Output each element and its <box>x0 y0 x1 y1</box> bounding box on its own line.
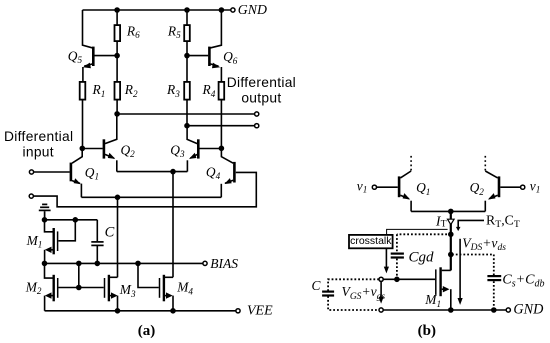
resistor R4 <box>219 82 225 100</box>
terminal GND (a) <box>231 8 235 12</box>
svg-text:Q2: Q2 <box>121 142 136 159</box>
transistor M2 <box>45 263 104 310</box>
terminal input1 <box>29 170 33 174</box>
node BIAS left corner <box>43 261 47 265</box>
node rail-R5 <box>185 8 189 12</box>
transistor Q6 <box>187 10 221 81</box>
wire R2 bottom <box>116 101 118 114</box>
wire input1 to Q1 base <box>34 171 70 173</box>
terminal v1 right <box>521 185 525 189</box>
transistor M1 <box>45 220 76 264</box>
node rail-Q6 collector <box>219 8 223 12</box>
node Q5 base / R6 line <box>115 54 119 58</box>
wire v1 to Q2b base <box>500 186 520 188</box>
node gate (b) circle <box>379 277 383 281</box>
resistor R3 <box>184 82 190 100</box>
wire R5 bottom to R3 top <box>186 42 188 81</box>
dotted wire Cs stem upper <box>493 255 495 276</box>
wire v1 to Q1b base <box>377 186 398 188</box>
wire gate (b) <box>383 278 435 280</box>
svg-text:M1: M1 <box>26 233 43 250</box>
capacitor C <box>91 220 103 264</box>
arrow VGS+vgs <box>379 282 384 304</box>
resistor R1 <box>80 82 86 100</box>
wire R3 bottom <box>186 101 188 126</box>
node M4 source rail <box>171 309 175 313</box>
svg-text:GND: GND <box>513 302 544 318</box>
node C bottom <box>95 261 99 265</box>
svg-text:C: C <box>312 278 322 293</box>
resistor R2 <box>115 82 121 100</box>
svg-text:Q4: Q4 <box>206 164 221 181</box>
svg-text:M3: M3 <box>119 282 136 299</box>
svg-text:Q1: Q1 <box>416 180 430 197</box>
node R4/Q3B/Q4C <box>219 146 223 150</box>
wire top GND rail <box>83 9 231 11</box>
current arrow IT (open) <box>448 219 455 224</box>
wire R5 top <box>186 10 188 25</box>
wire output2 <box>187 125 255 127</box>
wire Q4 base loop / input2 <box>33 172 256 206</box>
node Cgd tap <box>449 232 453 236</box>
arrow crosstalk to gate <box>384 249 389 274</box>
svg-text:M2: M2 <box>25 279 42 296</box>
transistor Q2 (b) <box>485 156 499 212</box>
node gatebus uplink <box>77 261 81 265</box>
terminal GND (b) <box>506 308 510 312</box>
pointer RT,CT <box>456 220 484 231</box>
node M3 source rail <box>116 309 120 313</box>
wire M3 drain feed vertical <box>117 197 119 277</box>
svg-text:R5: R5 <box>167 23 181 40</box>
svg-text:C: C <box>105 225 115 241</box>
node gate bus <box>77 286 81 290</box>
svg-text:Differential: Differential <box>4 129 73 144</box>
svg-text:(b): (b) <box>418 323 436 339</box>
wire crosstalk feeler <box>387 229 448 235</box>
wire output1 <box>117 113 255 115</box>
svg-text:R2: R2 <box>124 82 138 99</box>
terminal v1 left <box>372 185 376 189</box>
svg-text:input: input <box>22 145 53 160</box>
transistor M3 <box>105 275 118 311</box>
wire VEE rail <box>45 310 236 312</box>
svg-text:v1: v1 <box>530 178 541 194</box>
capacitor C (b) <box>322 279 379 310</box>
ground symbol (flipped) <box>39 204 51 219</box>
svg-text:Cs+Cdb: Cs+Cdb <box>502 273 544 290</box>
node rail-R6 <box>115 8 119 12</box>
svg-text:Q2: Q2 <box>470 180 485 197</box>
svg-text:M4: M4 <box>176 280 193 297</box>
transistor Q1 <box>71 148 82 197</box>
svg-text:v1: v1 <box>357 178 368 194</box>
svg-text:R3: R3 <box>166 82 180 99</box>
node R2/out1 <box>115 112 119 116</box>
node tail <box>171 170 175 174</box>
svg-text:(a): (a) <box>138 323 156 339</box>
wire emitter bus (b) <box>411 210 485 212</box>
transistor M1 (b) <box>436 267 451 310</box>
wire Q1C to Q2 base <box>82 148 102 150</box>
svg-text:BIAS: BIAS <box>210 256 238 271</box>
node emitter bus to M3 <box>116 195 120 199</box>
dotted wire Cgd stem upper <box>396 234 398 253</box>
node Cgd bottom <box>395 277 399 281</box>
terminal VEE <box>236 309 240 313</box>
crosstalk box <box>349 235 393 248</box>
node M1 gate link <box>73 218 77 222</box>
wire R6 bottom to R2 top <box>116 42 118 81</box>
resistor R6 <box>115 25 121 41</box>
svg-text:RT,CT: RT,CT <box>486 213 520 231</box>
svg-text:R1: R1 <box>92 82 106 99</box>
terminal out1 <box>255 112 259 116</box>
svg-text:Q6: Q6 <box>223 49 238 66</box>
transistor Q2 <box>104 114 117 172</box>
dotted wire Cgd stem lower <box>396 259 398 280</box>
transistor Q3 <box>187 126 198 172</box>
svg-text:Differential: Differential <box>227 75 296 90</box>
node gnd-sym / M1 drain <box>43 218 47 222</box>
node tail (b) <box>449 209 453 213</box>
terminal BIAS <box>203 261 207 265</box>
terminal out2 <box>255 124 259 128</box>
node R3/out2 <box>185 124 189 128</box>
svg-text:GND: GND <box>238 2 267 17</box>
transistor M4 <box>138 263 173 310</box>
svg-text:VGS+vgs: VGS+vgs <box>342 284 386 302</box>
wire IT tail vertical (bold) <box>450 211 452 270</box>
arrow VDS+vds <box>458 239 463 305</box>
resistor R5 <box>184 25 190 41</box>
dotted wire Cs top <box>452 254 494 256</box>
terminal input2 <box>29 194 33 198</box>
dotted wire Cs stem lower <box>493 281 495 310</box>
wire Q1-Q4 emitter bus <box>81 196 221 198</box>
capacitor Cgd <box>391 254 404 258</box>
svg-text:R6: R6 <box>126 23 140 40</box>
wire Q2-Q3 emitter bus <box>117 171 188 173</box>
node R1/Q1C/Q2B <box>80 146 84 150</box>
svg-text:crosstalk: crosstalk <box>350 235 392 247</box>
node Cs bottom rail <box>492 308 496 312</box>
capacitor Cs+Cdb <box>487 276 501 280</box>
wire R1 bottom <box>82 101 84 149</box>
wire R4 bottom <box>220 101 222 149</box>
svg-text:Q5: Q5 <box>68 48 83 65</box>
svg-text:VEE: VEE <box>247 304 273 319</box>
node Q6 base / R5 line <box>185 54 189 58</box>
wire R6 top <box>116 10 118 25</box>
node VDS tap <box>449 253 453 257</box>
svg-text:output: output <box>241 90 281 105</box>
transistor Q1 (b) <box>399 156 411 212</box>
svg-text:Cgd: Cgd <box>409 249 435 265</box>
wire BIAS <box>45 262 203 264</box>
svg-text:Q3: Q3 <box>170 142 185 159</box>
svg-text:M1: M1 <box>424 292 441 309</box>
svg-text:R4: R4 <box>202 82 216 99</box>
transistor Q5 <box>83 10 118 81</box>
transistor Q4 <box>221 148 234 197</box>
wire tail vertical to M4 drain <box>172 172 174 278</box>
wire Q3 base to R4 node <box>200 148 222 150</box>
wire GND rail (b) <box>383 309 506 311</box>
node source ref circle <box>379 308 383 312</box>
wire M1 top bus <box>45 219 98 221</box>
dotted wire Cgd top <box>397 233 451 235</box>
node M4 gate link <box>136 261 140 265</box>
svg-text:IT: IT <box>435 214 447 229</box>
svg-text:VDS+vds: VDS+vds <box>462 235 506 253</box>
svg-text:Q1: Q1 <box>85 165 99 182</box>
node M1b source rail <box>449 308 453 312</box>
